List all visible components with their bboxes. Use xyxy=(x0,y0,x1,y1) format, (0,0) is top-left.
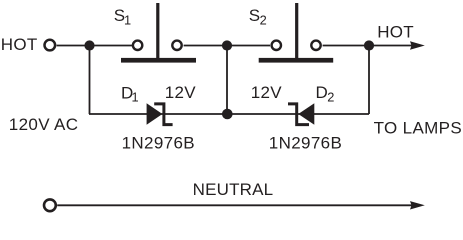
wire diode row xyxy=(89,113,369,115)
svg-text:HOT: HOT xyxy=(1,35,38,54)
switch S2 left contact xyxy=(272,41,281,50)
switch S2 actuator stem xyxy=(295,3,298,58)
terminal HOT (open circle) xyxy=(45,40,56,51)
svg-text:120V AC: 120V AC xyxy=(9,115,79,134)
wire hot rail left xyxy=(57,45,133,47)
wire neutral xyxy=(57,204,413,206)
svg-text:NEUTRAL: NEUTRAL xyxy=(193,180,274,199)
wire middle branch down xyxy=(226,46,228,115)
svg-text:1N2976B: 1N2976B xyxy=(269,133,342,152)
zener diode D2 triangle xyxy=(298,103,314,124)
wire S1 to S2 xyxy=(184,45,271,47)
arrowhead neutral xyxy=(410,201,425,209)
arrowhead HOT output xyxy=(410,41,425,49)
wire right branch down xyxy=(368,46,370,115)
svg-text:12V: 12V xyxy=(165,83,197,102)
junction B xyxy=(222,40,232,50)
svg-text:12V: 12V xyxy=(251,83,283,102)
switch S1 actuator bar xyxy=(121,58,196,63)
zener diode D2 cathode bar xyxy=(288,104,309,125)
junction C xyxy=(364,40,374,50)
junction D (middle of diode row) xyxy=(222,109,233,120)
wire S2 to output xyxy=(323,45,413,47)
switch S2 actuator bar xyxy=(259,58,334,63)
terminal NEUTRAL (open circle) xyxy=(44,199,56,211)
svg-text:TO LAMPS: TO LAMPS xyxy=(374,119,462,138)
wire left branch down xyxy=(89,46,91,115)
zener diode D1 triangle xyxy=(147,103,163,124)
switch S1 actuator stem xyxy=(156,3,159,58)
svg-text:1N2976B: 1N2976B xyxy=(122,133,195,152)
switch S1 right contact xyxy=(172,41,181,50)
junction A xyxy=(84,40,94,50)
svg-text:HOT: HOT xyxy=(377,22,414,41)
switch S1 left contact xyxy=(133,41,142,50)
switch S2 right contact xyxy=(311,41,320,50)
zener diode D1 cathode bar xyxy=(154,104,172,125)
